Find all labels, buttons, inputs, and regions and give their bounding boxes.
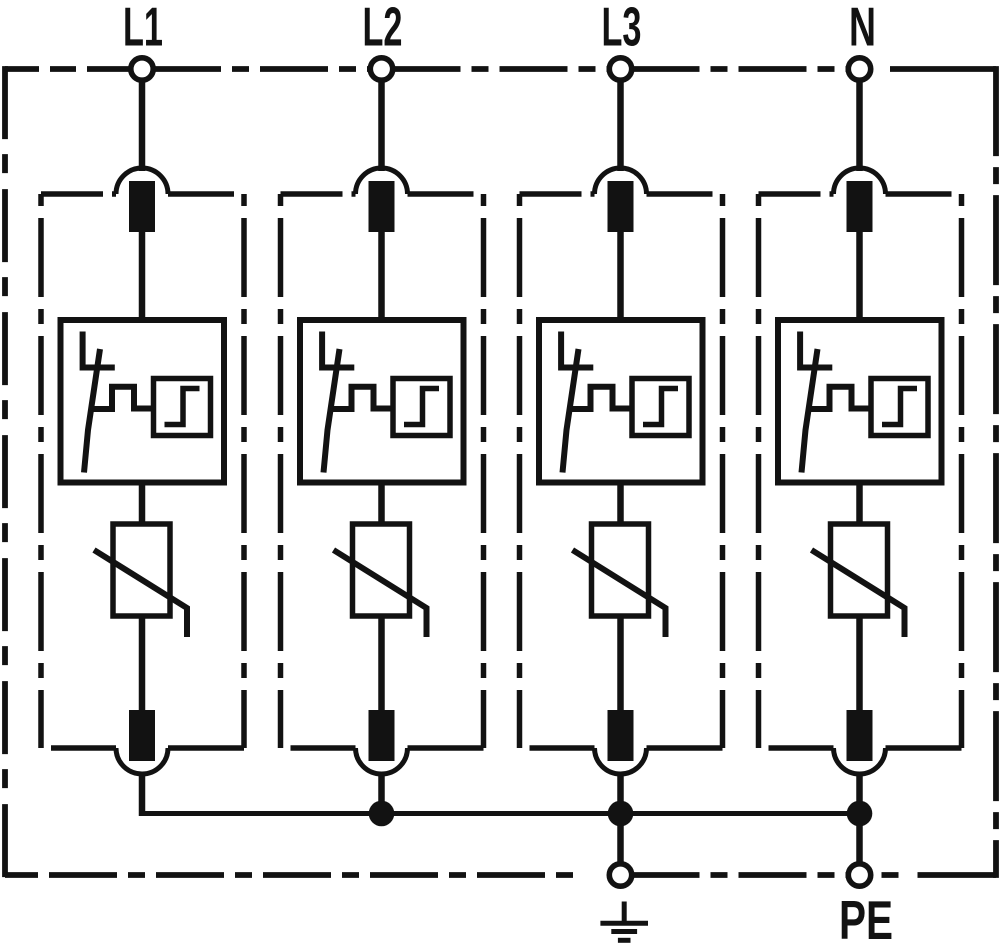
junction dot L3/bus <box>608 801 634 827</box>
step-function symbol inside indicator box L1 <box>165 389 200 425</box>
node L2 terminal circle <box>370 58 392 80</box>
wire disconnector to switch box N <box>856 232 863 320</box>
bottom bushing arc N <box>834 748 886 774</box>
trip indicator small box L3 <box>632 379 689 436</box>
thermal trip linkage (step line) L2 <box>331 387 393 409</box>
svg-text:L3: L3 <box>602 0 642 58</box>
wire disconnector to switch box L2 <box>378 232 385 320</box>
outer enclosure border, top edge left segment (dash-dot) <box>5 66 131 72</box>
protection module dashed box L1: bottom edge <box>51 745 116 751</box>
wire L1 bushing down to bus corner <box>139 774 146 816</box>
protection module dashed box L2: bottom edge <box>291 745 356 751</box>
protection module dashed box L1: top edge <box>41 191 116 197</box>
PE collecting bus wire <box>142 811 860 814</box>
protection module dashed box L3: bottom edge <box>530 745 595 751</box>
earth/ground symbol <box>622 902 627 923</box>
thermal disconnector (lower, filled) L1 <box>129 710 155 761</box>
trip indicator small box L1 <box>154 379 211 436</box>
outer enclosure border, bottom edge right segment <box>882 872 997 878</box>
protection module dashed box L3: left edge <box>517 194 523 748</box>
disconnection-and-monitoring device box L2 <box>300 320 464 483</box>
wire disconnector to switch box L1 <box>139 232 146 320</box>
wire varistor to lower disconnector L1 <box>139 616 146 710</box>
wire L3 terminal down to top bushing <box>617 81 624 172</box>
thermal disconnector (upper, filled) L2 <box>369 181 395 232</box>
varistor diagonal stroke L3 <box>573 550 666 637</box>
protection module dashed box L1: left edge <box>38 194 44 748</box>
varistor diagonal stroke L2 <box>334 550 427 637</box>
top bushing arc L2 <box>356 168 408 194</box>
wire switch box to varistor L3 <box>617 483 624 525</box>
switch blade (disconnector contact) L1 <box>84 349 100 473</box>
protection module dashed box L2: right edge <box>481 194 487 748</box>
protection module dashed box N: right edge <box>959 194 965 748</box>
protection module dashed box N: top edge <box>759 191 834 197</box>
trip indicator small box L2 <box>393 379 450 436</box>
protection module dashed box L2: left edge <box>278 194 284 748</box>
wire N bushing through bus to PE terminal <box>856 774 863 875</box>
node L3 terminal circle <box>609 58 631 80</box>
outer enclosure border, left edge (dash-dot) <box>2 66 8 878</box>
outer enclosure border, top edge right segment <box>890 66 996 72</box>
thermal trip linkage (step line) N <box>809 387 871 409</box>
disconnection-and-monitoring device box N <box>778 320 942 483</box>
switch blade (disconnector contact) L2 <box>324 349 340 473</box>
svg-text:L2: L2 <box>363 0 403 58</box>
junction dot N/bus <box>847 801 873 827</box>
thermal disconnector (lower, filled) L3 <box>608 710 634 761</box>
thermal disconnector (upper, filled) N <box>847 181 873 232</box>
protection module dashed box L1: right edge <box>241 194 247 748</box>
svg-text:L1: L1 <box>123 0 163 58</box>
trip indicator small box N <box>871 379 928 436</box>
top bushing arc L1 <box>116 168 168 194</box>
top bushing arc L3 <box>595 168 647 194</box>
thermal disconnector (lower, filled) L2 <box>369 710 395 761</box>
protection module dashed box N: left edge <box>756 194 762 748</box>
node N terminal circle <box>848 58 870 80</box>
outer enclosure border, bottom edge left segment (dash-dot) <box>5 872 583 878</box>
outer enclosure border, right edge (dash-dot) <box>993 66 999 878</box>
step-function symbol inside indicator box L3 <box>643 389 678 425</box>
protection module dashed box N: bottom edge <box>769 745 834 751</box>
switch fixed-contact lead N <box>800 332 832 368</box>
protection module dashed box L3: top edge <box>520 191 595 197</box>
protection module dashed box L3: right edge <box>720 194 726 748</box>
outer enclosure border, top edge L2-L3 segment <box>393 66 610 72</box>
protection module dashed box L2: top edge <box>281 191 356 197</box>
disconnection-and-monitoring device box L3 <box>539 320 703 483</box>
wire L2 bushing to bus junction <box>378 774 385 814</box>
thermal disconnector (upper, filled) L1 <box>129 181 155 232</box>
PE terminal circle <box>848 864 870 886</box>
svg-text:PE: PE <box>839 889 893 951</box>
ground terminal circle <box>609 864 631 886</box>
wire switch box to varistor N <box>856 483 863 525</box>
step-function symbol inside indicator box L2 <box>404 389 439 425</box>
junction dot L2/bus <box>369 801 395 827</box>
disconnection-and-monitoring device box L1 <box>61 320 225 483</box>
top bushing arc N <box>834 168 886 194</box>
step-function symbol inside indicator box N <box>882 389 917 425</box>
bottom bushing arc L1 <box>116 748 168 774</box>
thermal trip linkage (step line) L1 <box>92 387 154 409</box>
switch fixed-contact lead L3 <box>561 332 593 368</box>
outer enclosure border, top edge L3-N segment <box>632 66 849 72</box>
node L1 terminal circle <box>131 58 153 80</box>
switch fixed-contact lead L1 <box>83 332 115 368</box>
switch fixed-contact lead L2 <box>322 332 354 368</box>
bottom bushing arc L3 <box>595 748 647 774</box>
wire varistor to lower disconnector L2 <box>378 616 385 710</box>
thermal disconnector (lower, filled) N <box>847 710 873 761</box>
switch blade (disconnector contact) N <box>802 349 818 473</box>
varistor body L3 <box>592 524 649 616</box>
varistor body N <box>831 524 888 616</box>
wire L3 bushing through bus to ground terminal <box>617 774 624 875</box>
wire switch box to varistor L2 <box>378 483 385 525</box>
varistor diagonal stroke L1 <box>94 550 187 637</box>
varistor body L1 <box>113 524 170 616</box>
varistor body L2 <box>353 524 410 616</box>
thermal trip linkage (step line) L3 <box>570 387 632 409</box>
wire varistor to lower disconnector L3 <box>617 616 624 710</box>
wire L1 terminal down to top bushing <box>139 81 146 172</box>
bottom bushing arc L2 <box>356 748 408 774</box>
svg-text:N: N <box>849 0 876 58</box>
wire disconnector to switch box L3 <box>617 232 624 320</box>
switch blade (disconnector contact) L3 <box>563 349 579 473</box>
wire varistor to lower disconnector N <box>856 616 863 710</box>
wire L2 terminal down to top bushing <box>378 81 385 172</box>
thermal disconnector (upper, filled) L3 <box>608 181 634 232</box>
outer enclosure border, top edge L1-L2 segment <box>153 66 371 72</box>
wire N terminal down to top bushing <box>856 81 863 172</box>
wire switch box to varistor L1 <box>139 483 146 525</box>
outer enclosure border, bottom edge ground-PE segment <box>632 872 849 878</box>
varistor diagonal stroke N <box>812 550 905 637</box>
